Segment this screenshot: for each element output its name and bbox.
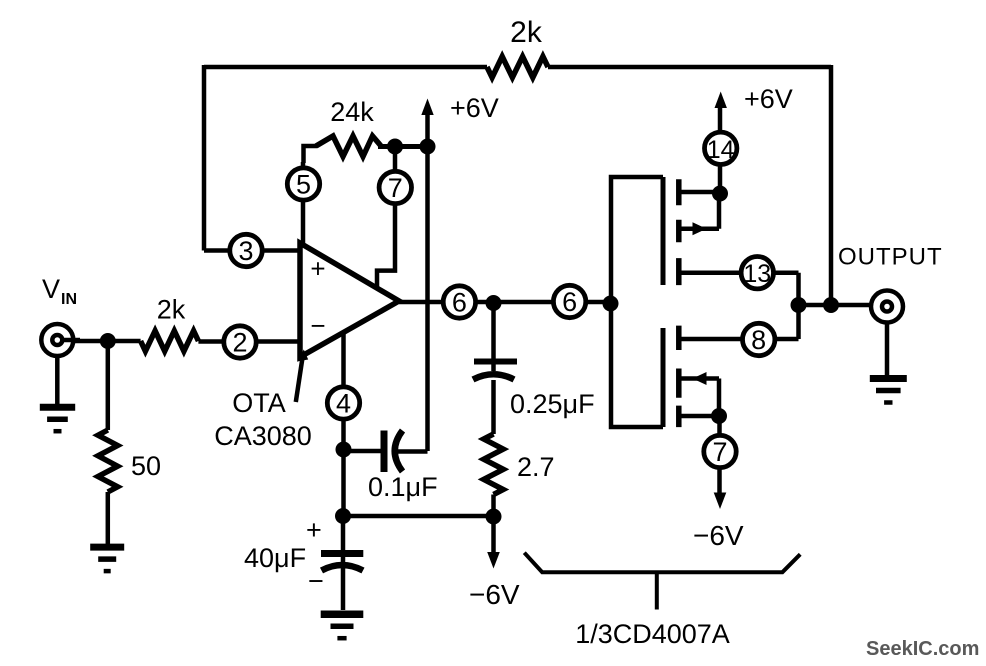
pin 6 circle (443, 286, 475, 318)
pin 7 circle (704, 435, 736, 467)
node junction dot 10 (711, 408, 727, 424)
pin 4 circle (327, 387, 359, 419)
ground (input connector) (55, 357, 60, 405)
power -6V arrow (middle) (487, 552, 500, 569)
wire 2.7 to -6V arrow (491, 495, 496, 554)
wire output node to connector (799, 303, 870, 308)
node junction dot 11 (791, 297, 807, 313)
node junction dot 4 (336, 442, 352, 458)
wire 0.1uF left lead (344, 449, 382, 454)
wire pin 7 (CD4007) to -6V arrow (717, 416, 722, 493)
gate bar lower (NMOS Q2) (661, 328, 666, 427)
wire down to 50 resistor (106, 341, 111, 430)
wire PMOS drain to pin 14 (679, 108, 720, 194)
wire 50 to ground (106, 492, 111, 544)
brace 1/3CD4007A (524, 553, 800, 610)
svg-text:OUTPUT: OUTPUT (838, 244, 943, 271)
svg-text:+: + (310, 254, 325, 284)
svg-text:IN: IN (61, 291, 77, 308)
svg-text:6: 6 (562, 287, 577, 317)
svg-text:2.7: 2.7 (517, 452, 555, 482)
svg-text:24k: 24k (330, 97, 374, 127)
wire NMOS source lead (679, 414, 719, 419)
svg-text:8: 8 (751, 325, 766, 355)
capacitor C 40uF electrolytic (341, 516, 346, 610)
svg-text:4: 4 (336, 389, 351, 419)
ground (output) (885, 323, 890, 376)
svg-text:−: − (310, 311, 325, 341)
wire pin 5 vertical (301, 162, 306, 244)
node junction dot 1 (100, 333, 116, 349)
svg-text:+: + (306, 515, 322, 545)
svg-text:2k: 2k (510, 16, 543, 49)
svg-text:+6V: +6V (744, 84, 793, 114)
capacitor C 0.1uF (381, 431, 388, 473)
wire PMOS substrate arrow (679, 194, 719, 229)
pin 7 circle (379, 171, 411, 203)
svg-text:7: 7 (388, 173, 403, 203)
pin 13 circle (741, 257, 773, 289)
power +6V arrow (right) (715, 92, 727, 109)
pin 2 circle (224, 326, 256, 358)
node junction dot 6 (486, 509, 502, 525)
node junction dot 7 (486, 295, 502, 311)
op-amp U1 CA3080 triangle (300, 243, 399, 357)
pin 5 circle (287, 168, 319, 200)
wire top feedback right segment (548, 65, 831, 70)
wire pin4-node to 2.7-node (344, 514, 494, 519)
svg-text:−6V: −6V (693, 520, 744, 551)
svg-text:−: − (308, 566, 324, 596)
svg-text:SeekIC.com: SeekIC.com (866, 638, 979, 660)
node junction dot 12 (823, 297, 839, 313)
pin 14 circle (705, 132, 737, 164)
transistor pair 1/3 CD4007A gate node (611, 177, 663, 304)
wire pin4 vertical (341, 332, 346, 516)
wire op-amp output to gate node (pin 6 row) (399, 300, 611, 305)
gate bar upper (PMOS Q1) (661, 177, 666, 285)
resistor R 2.7 (484, 434, 504, 495)
wire pin3 to op-amp (204, 248, 300, 253)
svg-text:−6V: −6V (469, 579, 520, 610)
resistor R 24k (304, 146, 318, 163)
channel dashes lower (676, 326, 682, 428)
resistor R 2k (top feedback) (487, 57, 548, 78)
wire 24k to +6V node (378, 144, 428, 149)
node junction dot 5 (335, 508, 351, 524)
power +6V arrow (left) (421, 99, 433, 116)
ground (40uF) (321, 610, 364, 618)
wire right feedback vertical (829, 65, 834, 305)
node junction dot 2 (387, 139, 403, 155)
svg-text:1/3CD4007A: 1/3CD4007A (575, 619, 730, 649)
svg-text:3: 3 (238, 236, 253, 266)
pin 3 circle (230, 234, 262, 266)
wire PMOS source to pin 13 to output node (679, 273, 799, 305)
capacitor C 0.25uF (491, 303, 496, 371)
svg-text:OTA: OTA (232, 388, 286, 418)
pin 8 circle (743, 323, 775, 355)
connector J2 output (871, 291, 903, 323)
svg-text:7: 7 (712, 437, 727, 467)
channel dashes upper (676, 179, 682, 285)
wire left vertical from top wire to pin 3 (202, 65, 207, 251)
svg-text:2k: 2k (157, 295, 186, 325)
wire 2k to pin2 to op-amp (198, 339, 300, 344)
wire pin 7 vertical with step to op-amp (377, 146, 395, 287)
svg-text:0.1μF: 0.1μF (368, 472, 438, 502)
svg-text:50: 50 (131, 451, 161, 481)
svg-text:14: 14 (707, 136, 735, 164)
wire NMOS drain to pin 8 to output node (679, 305, 799, 339)
wire top feedback left segment (204, 65, 487, 70)
ground (50 resistor) (90, 544, 124, 551)
svg-text:5: 5 (296, 170, 311, 200)
wire NMOS substrate arrow (679, 379, 719, 417)
svg-text:V: V (42, 274, 60, 304)
svg-text:CA3080: CA3080 (214, 421, 312, 451)
wire +6V rail vertical (to 0.1uF) (425, 112, 430, 451)
svg-text:0.25μF: 0.25μF (510, 389, 595, 419)
svg-text:6: 6 (452, 288, 467, 318)
node junction dot 8 (603, 296, 619, 312)
pin 6 circle (553, 285, 585, 317)
node junction dot 9 (712, 186, 728, 202)
resistor R 50 (98, 430, 118, 492)
svg-text:13: 13 (743, 260, 771, 288)
wire across input connector ring (62, 338, 80, 343)
svg-text:+6V: +6V (450, 93, 499, 123)
svg-text:40μF: 40μF (244, 543, 306, 573)
node junction dot 3 (420, 139, 436, 155)
svg-text:2: 2 (232, 328, 247, 358)
resistor R 2k (input) (141, 331, 199, 351)
